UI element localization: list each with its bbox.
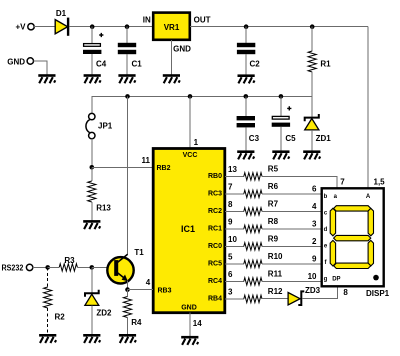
wire IC1 pin 13 to R5 xyxy=(225,165,244,177)
svg-text:R8: R8 xyxy=(268,217,279,226)
node emitter junction xyxy=(125,287,130,292)
label 1,5 anode pins xyxy=(374,178,386,187)
svg-text:JP1: JP1 xyxy=(98,121,113,130)
capacitor C4 xyxy=(83,27,107,83)
wire R7 to display pin 4 xyxy=(262,202,322,211)
IC1 pin label RC2 xyxy=(208,208,222,215)
wire IC1 pin 3 to R12 xyxy=(225,287,244,299)
node T1 collector tap xyxy=(125,94,130,99)
svg-text:GND: GND xyxy=(173,45,191,54)
capacitor C3 xyxy=(237,96,260,159)
wire IC1 pin 8 to R7 xyxy=(225,200,244,212)
IC1 pin label RC5 xyxy=(208,261,222,268)
svg-text:DP: DP xyxy=(332,277,340,283)
zener diode ZD1 xyxy=(303,96,331,159)
display segment a xyxy=(334,206,371,211)
node ZD2 tap xyxy=(90,265,95,270)
svg-text:ZD1: ZD1 xyxy=(316,134,332,143)
wire node to IC1 pin 4 xyxy=(128,278,154,289)
svg-text:GND: GND xyxy=(7,57,25,66)
wire node to T1 base xyxy=(92,266,113,268)
wire node to IC1 pin 11 xyxy=(92,156,153,167)
svg-text:+V: +V xyxy=(15,23,26,32)
svg-text:RS232: RS232 xyxy=(2,264,24,273)
svg-text:C2: C2 xyxy=(250,59,261,68)
svg-text:b: b xyxy=(324,194,328,200)
display segment c xyxy=(368,240,373,266)
svg-text:RC5: RC5 xyxy=(208,261,222,268)
jumper JP1 xyxy=(86,113,113,138)
svg-text:DISP1: DISP1 xyxy=(366,289,390,298)
node C5 tap xyxy=(279,94,284,99)
node junction C1 tap xyxy=(125,24,130,29)
svg-text:8: 8 xyxy=(228,200,233,209)
resistor R5 xyxy=(244,165,279,180)
display segment b xyxy=(368,208,373,236)
display segment f xyxy=(330,208,335,236)
node R2 tap xyxy=(45,265,50,270)
wire IC1 pin 14 GND to ground xyxy=(181,313,202,345)
svg-text:10: 10 xyxy=(228,235,237,244)
svg-text:C5: C5 xyxy=(285,134,296,143)
wire +V to D1 xyxy=(34,26,55,28)
IC1 pin label RC1 xyxy=(208,226,222,233)
wire dashed R2 to ground xyxy=(39,308,56,343)
wire D1 to VR1 IN xyxy=(69,26,153,28)
svg-text:13: 13 xyxy=(228,165,237,174)
wire JP1 to node xyxy=(91,139,93,168)
diode D1 xyxy=(55,9,69,36)
wire IC1 pin 10 to R9 xyxy=(225,235,244,247)
display DISP1 xyxy=(322,188,384,286)
wire VR1 OUT rail xyxy=(190,26,368,28)
svg-text:R6: R6 xyxy=(268,182,279,191)
IC1 pin label RC4 xyxy=(208,278,222,285)
svg-text:VCC: VCC xyxy=(183,152,198,159)
svg-text:d: d xyxy=(324,227,328,233)
wire IC1 pin 9 to R8 xyxy=(225,217,244,229)
svg-text:6: 6 xyxy=(228,270,233,279)
transistor T1 xyxy=(107,248,144,283)
resistor R4 xyxy=(119,290,142,343)
svg-text:OUT: OUT xyxy=(194,15,211,24)
capacitor C5 xyxy=(272,96,296,159)
svg-text:RB3: RB3 xyxy=(158,288,172,295)
svg-text:11: 11 xyxy=(142,156,151,165)
IC1 pin label RB4 xyxy=(208,296,222,303)
IC1 pin label RB0 xyxy=(208,173,222,180)
wire IC1 pin 7 to R6 xyxy=(225,182,244,194)
wire R8 to display pin 3 xyxy=(262,220,322,229)
node RB2 junction xyxy=(90,165,95,170)
svg-text:A: A xyxy=(366,194,371,200)
wire anode supply right side xyxy=(367,27,369,189)
svg-text:4: 4 xyxy=(146,278,151,287)
resistor R2 xyxy=(44,287,66,322)
svg-text:ZD3: ZD3 xyxy=(305,286,321,295)
wire VR1 GND pin to ground xyxy=(163,40,180,83)
svg-text:GND: GND xyxy=(181,305,197,312)
svg-text:9: 9 xyxy=(228,217,233,226)
wire 5V rail to JP1 xyxy=(92,96,312,113)
display decimal point xyxy=(373,275,379,281)
wire R12 to ZD3 xyxy=(262,298,288,300)
svg-text:10: 10 xyxy=(308,272,317,281)
node VCC tap xyxy=(188,94,193,99)
resistor R6 xyxy=(244,182,279,197)
resistor R1 xyxy=(308,27,331,97)
svg-text:R10: R10 xyxy=(268,252,283,261)
svg-text:R11: R11 xyxy=(268,270,283,279)
node junction C2 tap xyxy=(244,24,249,29)
svg-text:g: g xyxy=(324,277,328,283)
svg-text:IN: IN xyxy=(143,15,151,24)
svg-text:R2: R2 xyxy=(55,313,66,322)
svg-text:R7: R7 xyxy=(268,200,279,209)
IC1 pin label RC0 xyxy=(208,243,222,250)
voltage regulator VR1 xyxy=(143,13,211,54)
resistor R7 xyxy=(244,200,279,215)
wire IC1 pin 5 to R10 xyxy=(225,252,244,264)
wire dashed node to R2 xyxy=(47,267,49,287)
terminal GND xyxy=(7,57,33,66)
svg-text:R5: R5 xyxy=(268,165,279,174)
svg-text:RB2: RB2 xyxy=(157,165,171,172)
svg-text:3: 3 xyxy=(228,287,233,296)
wire R5 to display pin 7 xyxy=(262,176,345,188)
resistor R13 xyxy=(83,167,111,229)
display segment e xyxy=(330,240,335,266)
svg-text:R1: R1 xyxy=(320,59,331,68)
wire rail to IC1 pin 1 VCC xyxy=(190,96,199,148)
zener diode ZD3 xyxy=(288,286,321,305)
svg-text:IC1: IC1 xyxy=(181,224,195,234)
svg-text:7: 7 xyxy=(228,182,233,191)
svg-text:C3: C3 xyxy=(249,134,260,143)
resistor R3 xyxy=(48,256,92,271)
svg-text:RC4: RC4 xyxy=(208,278,222,285)
resistor R11 xyxy=(244,270,283,285)
wire T1 emitter to node xyxy=(127,281,129,290)
svg-text:7: 7 xyxy=(340,178,345,187)
wire R9 to display pin 2 xyxy=(262,237,322,246)
display pin labels xyxy=(324,194,371,283)
wire ZD3 to display pin 8 xyxy=(302,287,348,299)
svg-text:3: 3 xyxy=(312,220,317,229)
terminal RS232 xyxy=(2,264,33,273)
wire R10 to display pin 9 xyxy=(262,255,322,264)
svg-text:C4: C4 xyxy=(96,59,107,68)
svg-text:5: 5 xyxy=(228,252,233,261)
svg-text:8: 8 xyxy=(343,288,348,297)
terminal +V xyxy=(15,23,34,32)
svg-text:1,5: 1,5 xyxy=(374,178,386,187)
svg-text:RB4: RB4 xyxy=(208,296,222,303)
svg-text:R3: R3 xyxy=(64,256,75,265)
IC IC1 xyxy=(153,149,225,313)
node junction R1 tap xyxy=(310,24,315,29)
svg-text:VR1: VR1 xyxy=(164,23,180,32)
svg-text:D1: D1 xyxy=(56,9,67,18)
IC1 pin label RC3 xyxy=(208,191,222,198)
wire GND terminal to ground xyxy=(33,61,55,83)
svg-text:RC3: RC3 xyxy=(208,191,222,198)
svg-text:RC0: RC0 xyxy=(208,243,222,250)
zener diode ZD2 xyxy=(83,267,112,343)
svg-text:RC1: RC1 xyxy=(208,226,222,233)
wire R6 to display pin 6 xyxy=(262,185,322,194)
wire rail to T1 collector xyxy=(127,96,129,254)
wire R11 to display pin 10 xyxy=(262,272,322,281)
svg-text:R9: R9 xyxy=(268,235,279,244)
svg-text:T1: T1 xyxy=(134,248,144,257)
svg-text:4: 4 xyxy=(312,202,317,211)
svg-text:RB0: RB0 xyxy=(208,173,222,180)
resistor R12 xyxy=(244,287,283,302)
capacitor C1 xyxy=(118,27,142,83)
label DISP1 xyxy=(366,289,390,298)
svg-text:1: 1 xyxy=(194,138,199,147)
svg-text:6: 6 xyxy=(312,185,317,194)
svg-text:9: 9 xyxy=(312,255,317,264)
wire IC1 pin 6 to R11 xyxy=(225,270,244,282)
resistor R10 xyxy=(244,252,283,267)
display segment d xyxy=(334,263,371,268)
svg-text:C1: C1 xyxy=(132,59,143,68)
capacitor C2 xyxy=(237,27,260,84)
resistor R8 xyxy=(244,217,279,232)
svg-text:R12: R12 xyxy=(268,287,283,296)
wire RS232 to node xyxy=(33,266,48,268)
svg-text:2: 2 xyxy=(312,237,317,246)
resistor R9 xyxy=(244,235,279,250)
svg-text:RC2: RC2 xyxy=(208,208,222,215)
svg-text:ZD2: ZD2 xyxy=(96,309,112,318)
svg-text:R13: R13 xyxy=(96,204,111,213)
node C3 tap xyxy=(244,94,249,99)
svg-text:14: 14 xyxy=(193,319,202,328)
display segment g xyxy=(334,235,371,240)
node junction C4 tap xyxy=(90,24,95,29)
svg-text:R4: R4 xyxy=(131,318,142,327)
